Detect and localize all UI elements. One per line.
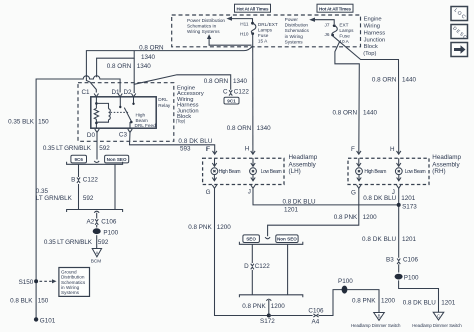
grid note 9C1 (224, 97, 239, 104)
grommet P100 (left) (93, 228, 119, 248)
wire label 0.8 BLK 150 (10, 297, 49, 304)
svg-text:S173: S173 (402, 203, 417, 210)
svg-text:H: H (390, 146, 395, 153)
svg-text:A2: A2 (87, 219, 95, 226)
wire DK BLU 1201 from LH J to splice S173 (251, 185, 399, 214)
LH low beam bulb (250, 158, 282, 181)
svg-text:0.8 PNK: 0.8 PNK (242, 303, 266, 310)
option label SEO (center) (243, 235, 260, 243)
svg-text:1200: 1200 (217, 224, 232, 231)
svg-text:SEO: SEO (246, 237, 256, 242)
wire from S172 right through C106 A4 (269, 290, 342, 316)
svg-text:Headlamp Dimmer Switch: Headlamp Dimmer Switch (412, 323, 462, 328)
svg-text:Schematics: Schematics (285, 28, 310, 33)
svg-text:J7: J7 (325, 22, 330, 27)
relay coil (94, 97, 110, 128)
wire label 0.8 DK BLU 1201 (to dimmer switch) (403, 299, 456, 306)
svg-text:Systems: Systems (285, 39, 304, 44)
svg-text:1200: 1200 (381, 297, 396, 304)
relay terminal labels D0 C3 (87, 129, 132, 139)
wire ORN 1340 from fuse H10 down to LH low beam H (251, 35, 255, 155)
option bracket upper (left section) (67, 161, 123, 164)
svg-text:Wiring: Wiring (364, 23, 380, 29)
wire ORN inner branch to relay coil C1 (97, 51, 135, 78)
svg-text:C106: C106 (101, 219, 117, 226)
splice S172 (260, 314, 275, 326)
fuse EXT Lamps 10A (325, 22, 355, 44)
nav button next arrow (451, 43, 468, 57)
hot at all times label 1 (235, 4, 271, 12)
svg-text:Non SEO: Non SEO (107, 157, 127, 162)
svg-text:0.8 ORN: 0.8 ORN (372, 77, 397, 84)
svg-text:1340: 1340 (137, 63, 152, 70)
svg-text:Low Beam: Low Beam (405, 169, 426, 175)
svg-text:B: B (71, 177, 75, 184)
svg-text:D1: D1 (112, 89, 121, 96)
LH terminal letters G J (206, 189, 251, 197)
svg-text:C3: C3 (119, 131, 128, 138)
relay terminal labels C1 D1 D2 (82, 89, 133, 96)
svg-text:Lamps: Lamps (258, 27, 273, 32)
svg-text:1201: 1201 (402, 236, 417, 243)
svg-text:Lamps: Lamps (339, 28, 354, 33)
svg-text:Block: Block (364, 44, 378, 50)
headlamp assembly LH dashed box (203, 154, 318, 184)
svg-text:C: C (437, 313, 440, 318)
destination triangle C headlamp dimmer switch (right) (412, 312, 462, 328)
svg-text:A4: A4 (312, 318, 320, 325)
svg-text:150: 150 (38, 297, 49, 304)
svg-text:Wiring Systems: Wiring Systems (187, 29, 220, 34)
svg-text:S172: S172 (260, 318, 275, 325)
wire LT GRN/BLK 592 from relay D0 down (43, 132, 110, 159)
svg-text:0.35: 0.35 (36, 188, 49, 195)
RH high beam bulb (356, 158, 387, 181)
svg-text:H10: H10 (240, 32, 249, 37)
svg-text:0.8 PNK: 0.8 PNK (188, 224, 212, 231)
option label 9C6 (71, 155, 87, 163)
wire ORN 1440 branch to RH high beam F (333, 42, 378, 155)
svg-text:G101: G101 (40, 317, 56, 324)
svg-text:0.8 ORN: 0.8 ORN (107, 63, 132, 70)
connector C106 pin A2 (87, 213, 117, 228)
hot at all times label 2 (317, 4, 353, 12)
option bracket lower (center section) (239, 295, 302, 316)
svg-text:1440: 1440 (363, 110, 378, 117)
option leg SEO with connector C122 pin D (244, 244, 270, 294)
svg-text:P100: P100 (338, 278, 353, 285)
nav button LOC (451, 7, 468, 21)
svg-text:Non SEO: Non SEO (277, 237, 297, 242)
wire PNK 1200 from RH G to option bracket (268, 185, 378, 236)
wire label 0.35 BLK 150 (8, 119, 49, 126)
svg-text:F: F (206, 146, 210, 153)
svg-text:J: J (248, 189, 251, 196)
svg-text:LT GRN/BLK: LT GRN/BLK (36, 195, 73, 202)
svg-text:0.35 LT GRN/BLK: 0.35 LT GRN/BLK (44, 239, 93, 246)
svg-text:B3: B3 (386, 256, 394, 263)
wire label 0.8 ORN 1340 (upper main) (139, 44, 164, 61)
svg-text:0.8 PNK: 0.8 PNK (352, 297, 376, 304)
svg-text:D2: D2 (124, 89, 133, 96)
svg-text:0.8 ORN: 0.8 ORN (333, 110, 358, 117)
engine wiring harness junction block label (363, 16, 385, 57)
svg-text:High Beam: High Beam (219, 169, 241, 175)
svg-text:High Beam: High Beam (364, 169, 386, 175)
svg-text:EXT: EXT (339, 22, 348, 27)
svg-text:1340: 1340 (257, 125, 272, 132)
svg-text:0.8 DK BLU: 0.8 DK BLU (363, 195, 396, 202)
option bracket upper (center section) (239, 237, 302, 244)
grommet P100 (bottom) (338, 278, 379, 312)
option leg Non SEO (left section) (114, 164, 116, 209)
svg-text:Fuse: Fuse (258, 33, 269, 38)
svg-text:C122: C122 (83, 177, 99, 184)
RH terminal letters F H (351, 146, 395, 153)
junction block (top) dashed box (172, 15, 361, 47)
svg-text:593: 593 (180, 146, 191, 153)
ground G101 (34, 317, 56, 324)
wire label 0.35 LT GRN/BLK 592 (to BCM) (44, 239, 109, 246)
svg-text:Harness: Harness (364, 30, 386, 36)
svg-text:C106: C106 (403, 256, 419, 263)
wire label 0.8 ORN 1340 (inner) (107, 63, 152, 70)
svg-text:Distribution: Distribution (285, 23, 309, 28)
connector C106 pin A4 (308, 307, 324, 325)
svg-text:0.8 DK BLU: 0.8 DK BLU (178, 138, 212, 145)
svg-text:Engine: Engine (364, 16, 382, 22)
svg-text:H: H (245, 145, 250, 152)
wire DK BLU 1201 label above B3 (362, 236, 417, 243)
ground distribution reference box (59, 268, 90, 297)
svg-text:Systems: Systems (61, 290, 80, 295)
option label Non SEO (105, 155, 129, 163)
nav button DESC (451, 25, 468, 41)
svg-text:Fuse: Fuse (339, 34, 350, 39)
svg-text:(Top): (Top) (176, 118, 186, 123)
svg-text:0.8 PNK: 0.8 PNK (334, 214, 358, 221)
DRL relay box (91, 97, 171, 128)
svg-text:Power Distribution: Power Distribution (187, 18, 225, 23)
svg-text:C122: C122 (234, 89, 250, 96)
svg-text:Headlamp Dimmer Switch: Headlamp Dimmer Switch (351, 323, 401, 328)
splice S150 (19, 279, 57, 286)
svg-text:1340: 1340 (141, 54, 156, 61)
svg-text:Headlamp: Headlamp (289, 154, 318, 161)
wire DK BLU 593 from C3 to LH high beam F (130, 132, 217, 154)
RH low beam bulb (395, 158, 425, 181)
svg-text:592: 592 (98, 239, 109, 246)
svg-text:0.8 DK BLU: 0.8 DK BLU (362, 236, 396, 243)
wire PNK 1200 from LH G down (188, 185, 269, 316)
svg-text:C1: C1 (82, 89, 91, 96)
connector C106 pin B3 (386, 256, 419, 272)
svg-text:Junction: Junction (364, 37, 386, 43)
svg-text:0.35 BLK: 0.35 BLK (8, 119, 35, 126)
svg-text:B: B (378, 314, 381, 319)
svg-text:J6: J6 (325, 32, 330, 37)
power distribution reference text (left) (187, 18, 225, 34)
connector C122 pin C (204, 78, 250, 95)
wire ORN branch from H10 junction left to relay area (86, 46, 253, 77)
wire jog into relay C1 (86, 77, 98, 97)
option bracket lower (left section) (67, 210, 123, 213)
RH terminal letters G J (351, 189, 395, 196)
svg-text:0.8 ORN: 0.8 ORN (227, 125, 252, 132)
svg-text:C: C (223, 89, 228, 96)
svg-text:150: 150 (38, 119, 49, 126)
svg-text:9C6: 9C6 (74, 157, 83, 162)
svg-text:D0: D0 (87, 132, 96, 139)
option leg SEO with connector C122 pin B (71, 164, 98, 209)
LH terminal letters F H (206, 145, 250, 153)
svg-text:0.8 BLK: 0.8 BLK (10, 297, 33, 304)
svg-text:1201: 1201 (441, 299, 456, 306)
headlamp assembly RH dashed box (348, 154, 461, 184)
destination triangle BCM (91, 249, 102, 264)
svg-text:H11: H11 (240, 22, 249, 27)
svg-text:Hot At All Times: Hot At All Times (319, 6, 351, 11)
arrow to power distribution text (left, from H11) (226, 16, 252, 22)
svg-text:9C1: 9C1 (227, 98, 236, 103)
svg-text:G: G (351, 190, 356, 197)
option label Non SEO (center) (276, 235, 298, 243)
svg-text:1200: 1200 (363, 214, 378, 221)
svg-text:DRL: DRL (158, 97, 168, 102)
svg-text:DRL Feed: DRL Feed (135, 123, 157, 128)
svg-text:in Wiring: in Wiring (285, 34, 304, 39)
svg-text:1201: 1201 (284, 207, 299, 214)
svg-text:0.8 DK BLU: 0.8 DK BLU (403, 299, 436, 306)
svg-text:Headlamp: Headlamp (432, 154, 461, 161)
svg-text:S150: S150 (19, 279, 34, 286)
svg-text:DRL/EXT: DRL/EXT (258, 22, 278, 27)
wire ORN 1440 from fuse J6 to RH low beam H (333, 36, 417, 154)
option leg Non SEO (center section) (287, 244, 289, 294)
power distribution reference text (right) (285, 17, 310, 44)
svg-text:1340: 1340 (233, 78, 248, 85)
svg-text:C122: C122 (255, 263, 271, 270)
relay switch high beam DRL feed (111, 97, 157, 128)
svg-text:592: 592 (83, 195, 94, 202)
wire label 0.8 PNK 1200 (to dimmer switch) (352, 297, 396, 304)
wire label 0.35 LT GRN/BLK 592 (left leg) (36, 188, 94, 202)
svg-text:Beam: Beam (136, 118, 148, 123)
wire label 0.8 ORN 1340 (to LH low beam) (227, 125, 271, 132)
svg-text:G: G (206, 189, 211, 196)
svg-text:Relay: Relay (158, 103, 171, 108)
svg-text:C106: C106 (308, 307, 324, 314)
svg-text:F: F (351, 146, 355, 153)
svg-text:Hot At All Times: Hot At All Times (237, 6, 269, 11)
svg-text:0.8 ORN: 0.8 ORN (204, 78, 229, 85)
svg-text:(Top): (Top) (363, 51, 376, 57)
wire label 0.8 PNK 1200 (center leg) (242, 303, 285, 310)
svg-text:1440: 1440 (402, 77, 417, 84)
svg-text:15 A: 15 A (258, 39, 268, 44)
svg-text:1200: 1200 (271, 303, 286, 310)
svg-text:D: D (244, 263, 249, 270)
svg-text:A: A (96, 250, 99, 255)
wire DK BLU 1201 RH J down (363, 185, 416, 258)
svg-text:P100: P100 (404, 274, 419, 281)
svg-text:P100: P100 (103, 229, 118, 236)
svg-text:1201: 1201 (401, 195, 416, 202)
svg-text:BCM: BCM (91, 259, 102, 264)
svg-text:Schematics in: Schematics in (187, 24, 217, 29)
svg-text:(LH): (LH) (289, 168, 301, 175)
destination triangle B headlamp dimmer switch (left) (351, 313, 401, 329)
wire BLK 150 ground run with hops (36, 76, 122, 319)
svg-text:(RH): (RH) (432, 168, 445, 175)
svg-text:Low Beam: Low Beam (261, 169, 282, 175)
arrow to power distribution text (right, from J7) (309, 18, 334, 25)
svg-text:592: 592 (99, 145, 110, 152)
engine accessory junction block label (176, 86, 204, 124)
splice S173 (397, 203, 418, 211)
LH high beam bulb (211, 158, 241, 181)
arrow up to power distribution text (left, from wire) (207, 34, 252, 45)
svg-text:High: High (136, 113, 146, 118)
svg-text:0.35 LT GRN/BLK: 0.35 LT GRN/BLK (43, 145, 92, 152)
wire ORN drop to relay D2 and diagonal to C122 branch (131, 58, 230, 97)
grommet P100 (right) (395, 274, 439, 312)
svg-text:Power: Power (285, 17, 299, 22)
engine accessory junction block dashed box (78, 83, 174, 142)
svg-text:0.8 DK BLU: 0.8 DK BLU (283, 199, 316, 206)
fuse DRL/EXT Lamps 15A (240, 22, 278, 44)
